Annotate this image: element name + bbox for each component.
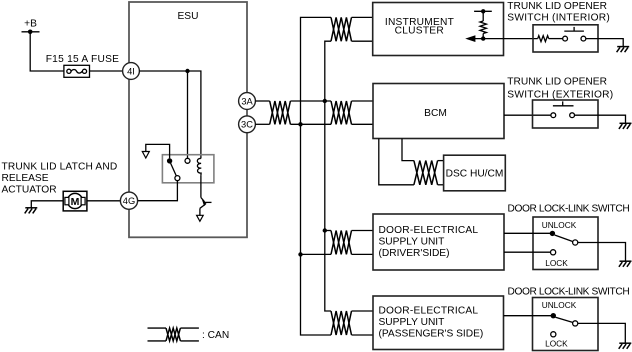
resistor (IC pull-up) [480,21,486,34]
svg-text:UNLOCK: UNLOCK [542,300,577,310]
wire twist to BCM lower [352,123,374,125]
ESU box [129,2,247,237]
svg-text:DSC HU/CM: DSC HU/CM [446,169,504,180]
svg-text:UNLOCK: UNLOCK [542,220,577,230]
switch contact circles (exterior) [551,113,556,118]
interior switch box [533,25,598,52]
CAN bus left line [301,17,332,335]
CAN legend wires right [180,327,199,329]
ground (actuator) [25,208,38,214]
ground (interior switch) [617,47,630,53]
svg-text:(PASSENGER'S SIDE): (PASSENGER'S SIDE) [379,329,484,340]
wire twist to IC upper [352,16,373,18]
exterior switch box [533,100,599,128]
wire relay contact to 4G [138,181,178,201]
driver door unit box [373,214,504,270]
svg-text:DOOR LOCK-LINK SWITCH: DOOR LOCK-LINK SWITCH [508,286,630,297]
common contact circle [573,240,578,245]
svg-text:F15 15 A FUSE: F15 15 A FUSE [46,54,119,65]
arrow into IC [465,35,475,42]
wire 3A to twist [255,100,269,102]
svg-text:3C: 3C [241,120,253,130]
wire BCM to DSC lower [379,139,414,185]
instrument cluster box [373,3,504,56]
lock contact circle (passenger) [551,332,556,337]
ground (passenger switch) [619,343,632,349]
svg-text:ACTUATOR: ACTUATOR [2,185,57,196]
svg-text:TRUNK LID OPENER: TRUNK LID OPENER [507,76,607,87]
CAN twist (BCM to DSC) [414,161,438,185]
wire passenger switch to ground [578,323,626,343]
push button bar (exterior) [553,105,574,107]
CAN twist (ESU to bus) [270,101,291,124]
passenger door unit box [373,296,504,350]
fuse F15 body [64,65,90,77]
wire BCM to exterior switch [504,114,551,116]
svg-text:SUPPLY UNIT: SUPPLY UNIT [379,317,445,328]
motor M1 (latch actuator) [63,191,87,211]
CAN twist (bus to BCM) [331,101,352,124]
wire unit to unlock contact [504,232,551,234]
IC pull-up rail [474,10,492,12]
svg-text:BCM: BCM [424,108,447,119]
wire exterior switch to ground [575,115,626,123]
svg-text:CLUSTER: CLUSTER [395,26,444,37]
terminal 3C [239,116,256,133]
push button bar [564,30,584,32]
driver switch box [533,217,598,270]
svg-text:+B: +B [24,18,37,29]
wire twist to BCM upper [352,100,374,102]
switch contact circles (interior) [563,36,568,41]
CAN legend wires left [148,327,167,329]
DSC HU/CM box [444,155,506,191]
wire interior switch to ground [586,39,623,47]
wire twist to bus upper [290,100,331,102]
common contact circle (passenger) [573,321,578,326]
svg-text:RELEASE: RELEASE [2,173,49,184]
relay switch blade [171,163,177,176]
wire branch to relay contact [187,71,189,158]
wire 3C to twist [255,123,269,125]
svg-text:SWITCH (INTERIOR): SWITCH (INTERIOR) [507,12,610,23]
unlock contact dot [550,231,555,236]
terminal 3A [239,93,256,110]
svg-text:SWITCH (EXTERIOR): SWITCH (EXTERIOR) [507,90,613,101]
wire BCM to DSC upper [402,139,414,161]
CAN twist (bus to instrument cluster) [331,17,352,41]
junction dot left bus lower [298,122,302,126]
relay switch pivot [167,158,172,163]
relay coil [197,158,201,175]
resistor (interior switch) [538,36,549,42]
wire driver switch to ground [578,243,626,262]
CAN twist (bus to passenger unit) [331,311,352,335]
unlock contact dot (passenger) [551,313,556,318]
open arrow down (transistor emitter) [197,215,204,221]
svg-text:TRUNK LID OPENER: TRUNK LID OPENER [507,1,607,12]
CAN legend twist [166,328,180,341]
terminal 4I [123,63,140,80]
node +B bar [22,31,40,33]
wire twist to IC lower [352,40,373,42]
relay box [162,155,214,183]
junction dot right bus upper [323,99,327,103]
CAN bus right line [325,41,331,311]
wire twist to bus lower [290,123,331,125]
wire bus to driver twist upper [325,230,331,232]
svg-text:4I: 4I [127,66,135,76]
wire motor to 4G [87,200,121,202]
svg-text:TRUNK LID LATCH AND: TRUNK LID LATCH AND [2,162,118,173]
wire bus to driver twist lower [301,253,332,255]
svg-text:DOOR-ELECTRICAL: DOOR-ELECTRICAL [379,306,479,317]
ground (exterior switch) [619,123,632,129]
svg-text:DOOR LOCK-LINK SWITCH: DOOR LOCK-LINK SWITCH [508,204,630,215]
svg-text:LOCK: LOCK [545,258,568,268]
junction dot at 4I branch [185,69,189,73]
open arrow down (relay feed) [142,152,149,159]
terminal 4G [120,192,137,209]
svg-text:4G: 4G [123,196,135,206]
svg-text:DOOR-ELECTRICAL: DOOR-ELECTRICAL [379,225,479,236]
CAN twist (bus to driver unit) [331,231,352,255]
wire unit to lock contact [504,251,550,253]
relay switch contact circle [175,176,180,181]
svg-text:3A: 3A [241,96,253,106]
wire fuse to 4I [90,70,123,72]
wire +B to fuse [30,32,64,71]
transistor Q (coil driver) [200,176,212,216]
BCM box [373,84,504,139]
lock contact circle [551,250,556,255]
switch blade [555,235,573,242]
svg-text:: CAN: : CAN [202,330,229,341]
junction dot right bus (driver) [323,228,327,232]
wire unit to unlock contact (passenger) [504,315,552,317]
passenger switch box [533,298,599,351]
wire 4I to relay [139,71,201,159]
svg-text:LOCK: LOCK [545,338,568,348]
junction dot left bus (driver) [298,252,302,256]
svg-text:ESU: ESU [178,11,199,22]
ground (driver switch) [619,261,632,267]
relay coil contact circle [185,158,190,163]
wire motor to ground [31,201,63,208]
junction dot on signal wire [481,36,485,40]
svg-text:(DRIVER'SIDE): (DRIVER'SIDE) [379,248,450,259]
switch blade (passenger) [556,317,574,322]
wire relay pivot to arrow [146,144,170,158]
wire IC to interior switch [475,38,538,40]
svg-text:M: M [71,196,80,208]
svg-text:SUPPLY UNIT: SUPPLY UNIT [379,237,445,248]
